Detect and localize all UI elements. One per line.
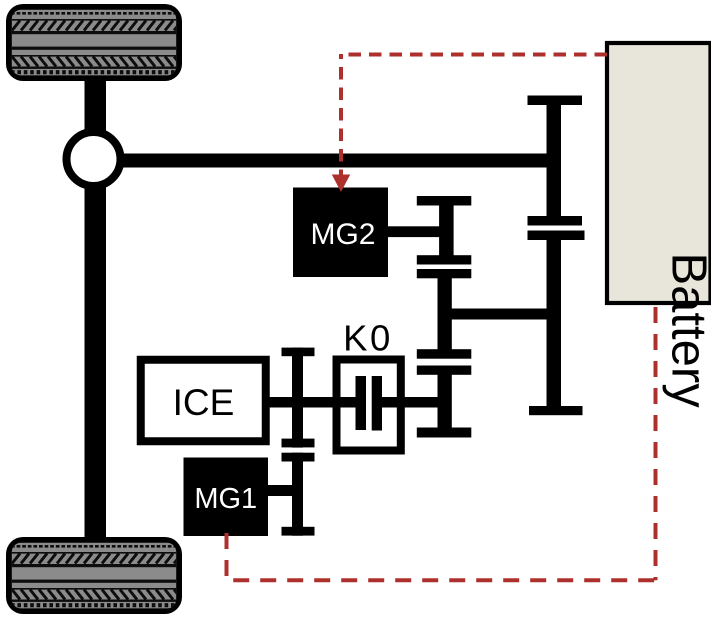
battery bbox=[607, 43, 711, 303]
wire: K0 output shaft bbox=[381, 397, 446, 408]
motor MG2 bbox=[293, 188, 388, 278]
wire: ICE output shaft bbox=[266, 397, 336, 408]
gear: countershaft top (MG2 input) bbox=[417, 196, 472, 265]
main drive shaft to final drive bbox=[115, 154, 561, 168]
clutch K0 box bbox=[337, 360, 401, 451]
clutch plate left bbox=[356, 376, 367, 430]
svg-text:ICE: ICE bbox=[173, 382, 235, 423]
gear: final drive upper (T-top) bbox=[528, 96, 583, 226]
wire: countershaft to final drive bbox=[446, 309, 558, 320]
axle shaft (vertical) bbox=[85, 78, 107, 540]
clutch plate right bbox=[372, 376, 382, 431]
engine ICE bbox=[141, 360, 266, 442]
svg-text:MG1: MG1 bbox=[194, 483, 257, 515]
wheel: rear tire bbox=[6, 537, 182, 614]
svg-text:Battery: Battery bbox=[661, 253, 711, 409]
svg-text:MG2: MG2 bbox=[310, 218, 375, 251]
gear: MG1 gear bbox=[282, 453, 315, 536]
wire: MG2 output shaft bbox=[388, 226, 446, 237]
arrowhead into MG2 bbox=[332, 175, 350, 193]
motor MG1 bbox=[184, 458, 269, 537]
wire: electric line battery to MG1 (red dashed) bbox=[227, 307, 656, 582]
gear: final drive lower bbox=[528, 231, 585, 416]
wire: MG1 output shaft bbox=[268, 485, 298, 496]
svg-text:K0: K0 bbox=[343, 318, 393, 359]
wire: electric line battery to MG2 (red dashed) bbox=[341, 54, 607, 177]
gear: countershaft bottom (engine input) bbox=[417, 366, 472, 438]
wire: clutch input stub bbox=[335, 397, 356, 408]
gear: on ICE shaft bbox=[282, 348, 315, 448]
wheel: front tire bbox=[6, 4, 182, 81]
differential bbox=[67, 132, 121, 186]
gear: countershaft middle bbox=[417, 269, 472, 359]
